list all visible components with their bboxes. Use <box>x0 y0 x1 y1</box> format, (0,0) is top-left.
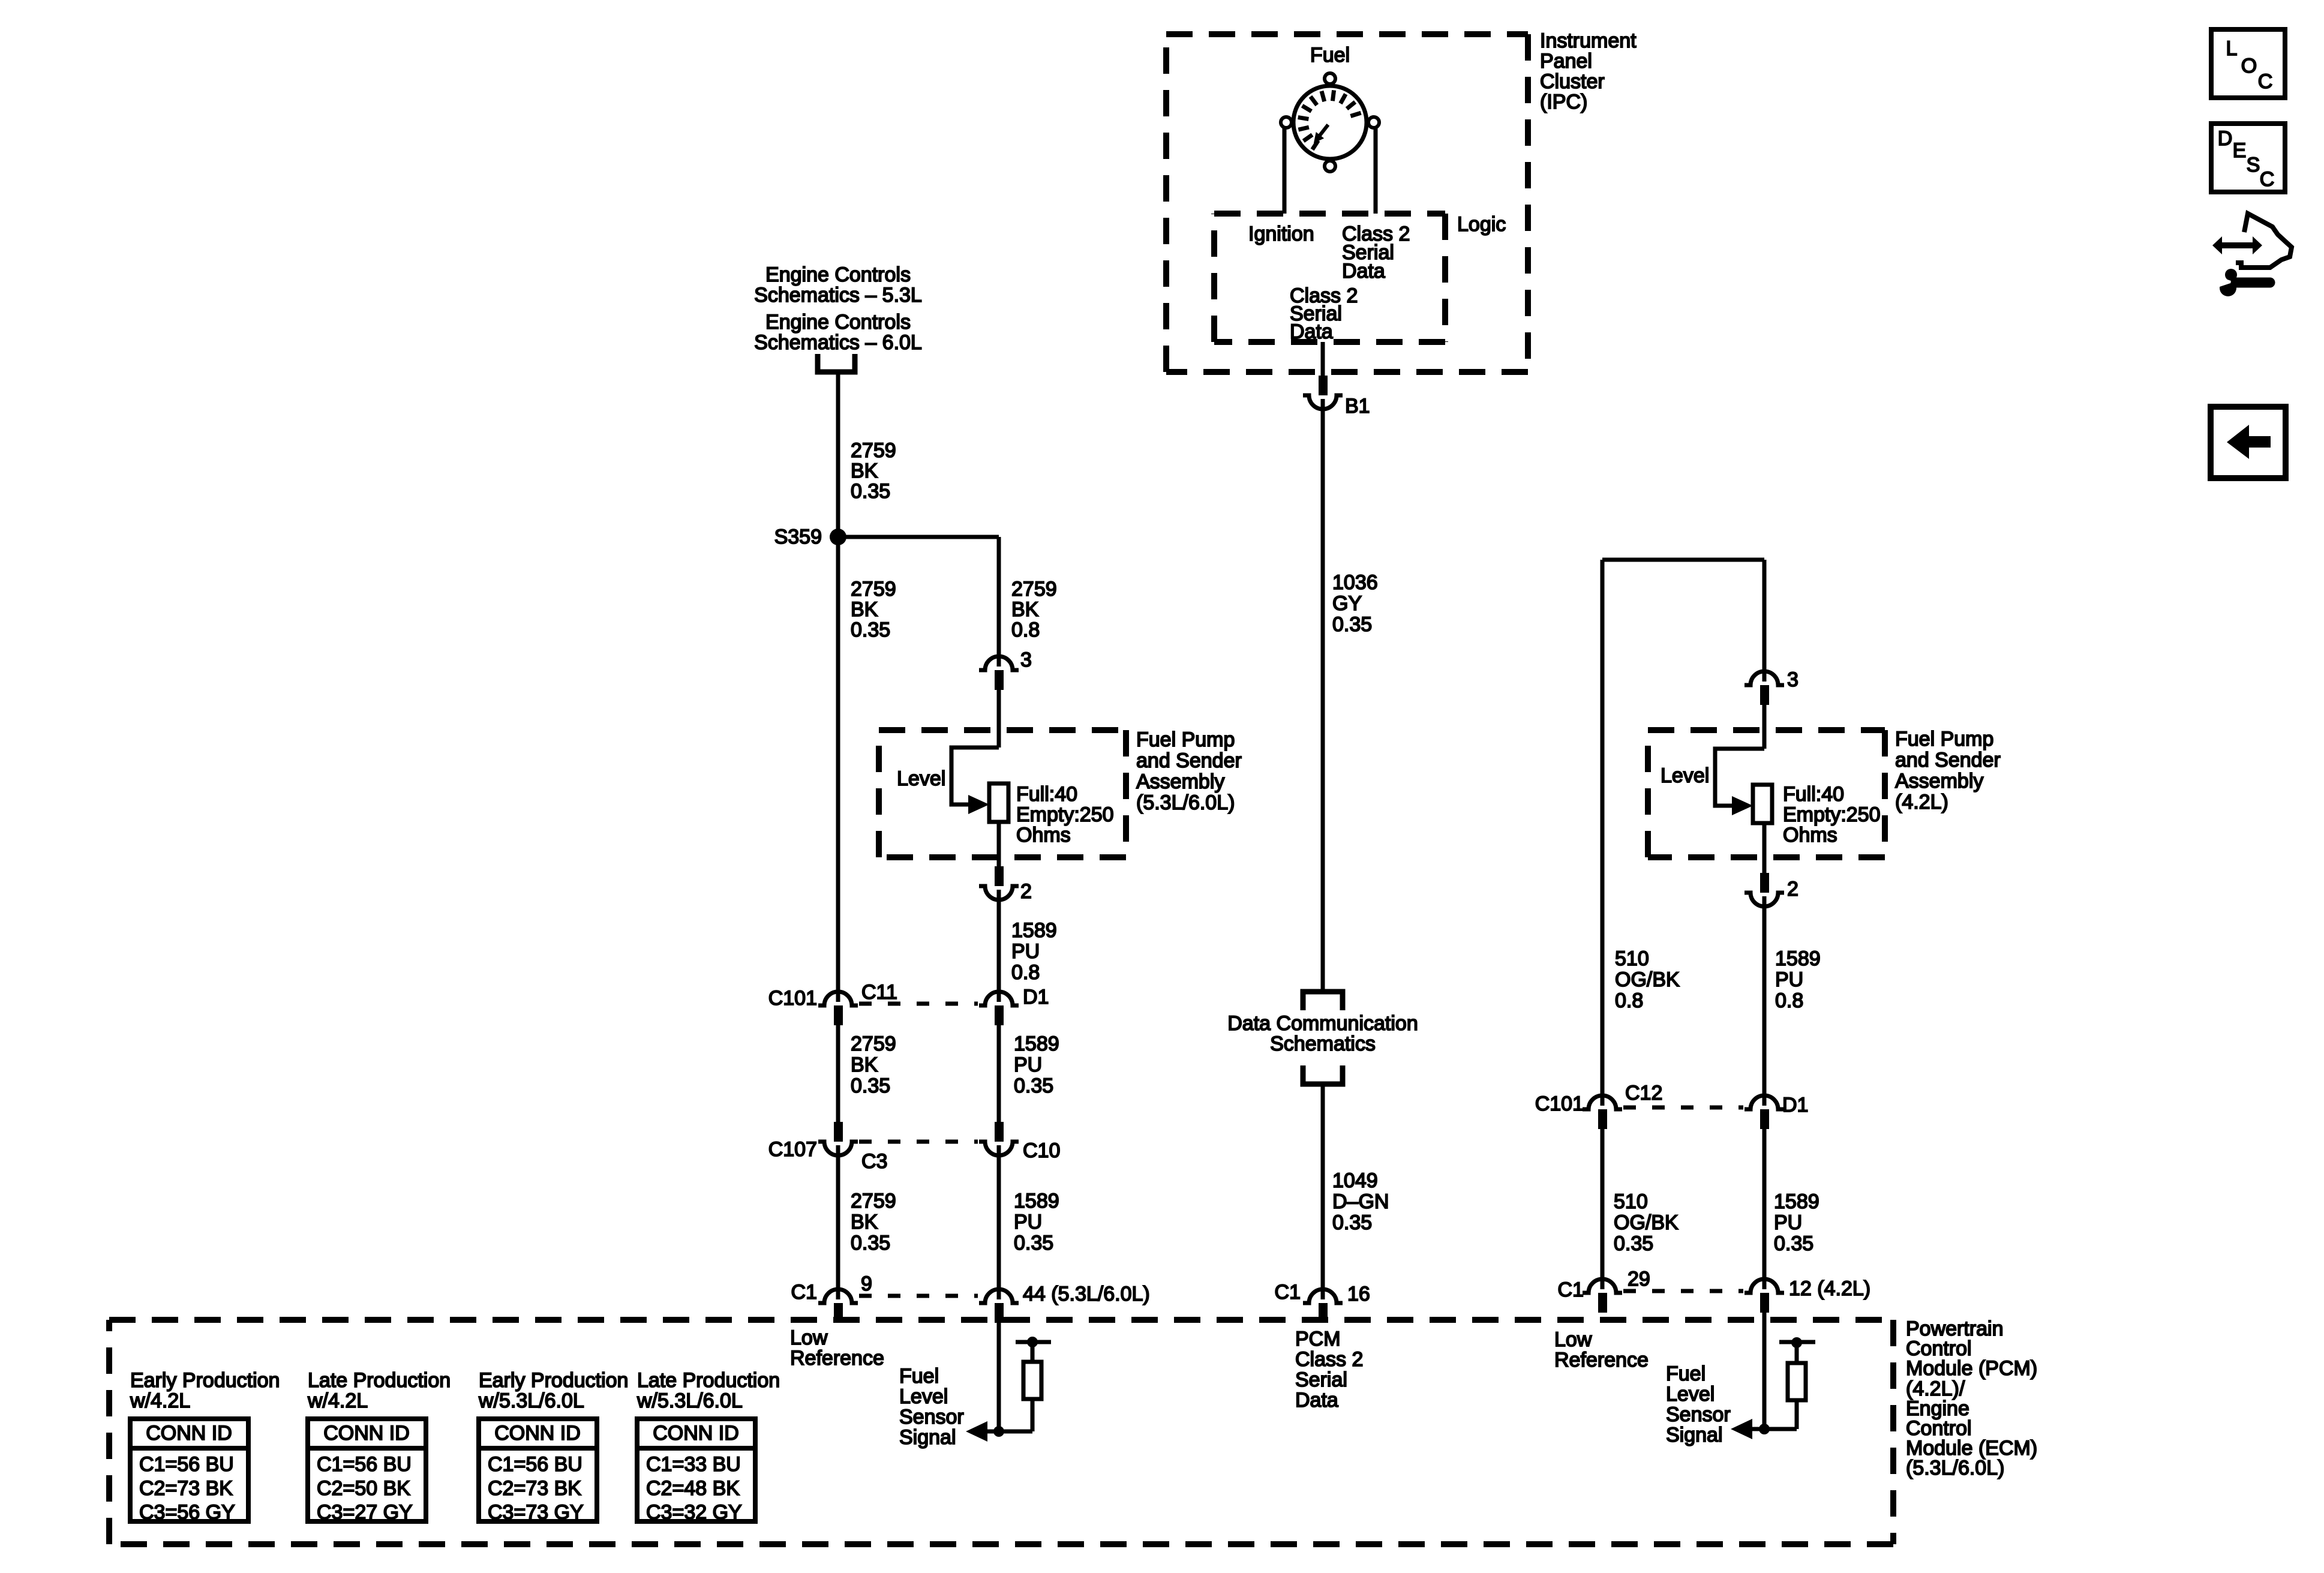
svg-text:C3=56 GY: C3=56 GY <box>139 1501 235 1524</box>
svg-text:L: L <box>2226 37 2238 60</box>
svg-text:(4.2L): (4.2L) <box>1895 791 1948 813</box>
svg-text:CONN ID: CONN ID <box>653 1422 739 1445</box>
svg-text:Early Production: Early Production <box>130 1369 280 1392</box>
svg-text:0.35: 0.35 <box>1014 1074 1053 1097</box>
svg-text:C1: C1 <box>1558 1278 1584 1301</box>
svg-text:2759: 2759 <box>851 439 896 462</box>
svg-text:C3=32 GY: C3=32 GY <box>646 1501 742 1524</box>
svg-text:2: 2 <box>1020 880 1032 903</box>
svg-text:0.35: 0.35 <box>851 619 890 641</box>
svg-text:1049: 1049 <box>1332 1169 1378 1192</box>
svg-text:O: O <box>2241 55 2257 77</box>
svg-text:(5.3L/6.0L): (5.3L/6.0L) <box>1906 1457 2004 1479</box>
svg-text:Late Production: Late Production <box>637 1369 780 1392</box>
svg-text:C3: C3 <box>861 1150 887 1173</box>
svg-text:Schematics – 5.3L: Schematics – 5.3L <box>754 284 922 307</box>
svg-text:BK: BK <box>851 1053 878 1076</box>
svg-text:Assembly: Assembly <box>1895 770 1983 792</box>
svg-text:C11: C11 <box>861 981 897 1004</box>
svg-text:Data Communication: Data Communication <box>1227 1012 1418 1035</box>
svg-text:and Sender: and Sender <box>1136 749 1242 772</box>
svg-text:1589: 1589 <box>1774 1190 1819 1213</box>
svg-text:Fuel Pump: Fuel Pump <box>1136 728 1235 751</box>
svg-text:9: 9 <box>861 1272 872 1295</box>
svg-text:0.35: 0.35 <box>1614 1232 1653 1255</box>
svg-text:0.35: 0.35 <box>1332 613 1372 636</box>
svg-text:C1: C1 <box>1275 1281 1301 1304</box>
svg-text:29: 29 <box>1628 1268 1650 1290</box>
svg-text:Reference: Reference <box>790 1347 884 1370</box>
svg-text:Level: Level <box>1661 764 1709 787</box>
svg-text:0.35: 0.35 <box>851 1232 890 1254</box>
svg-text:Data: Data <box>1342 260 1385 283</box>
svg-text:Level: Level <box>897 767 945 790</box>
svg-text:Data: Data <box>1290 320 1333 343</box>
svg-text:CONN ID: CONN ID <box>494 1422 581 1445</box>
svg-text:PU: PU <box>1014 1053 1042 1076</box>
svg-text:S359: S359 <box>774 526 822 548</box>
svg-text:C101: C101 <box>1535 1092 1584 1115</box>
svg-text:Class 2: Class 2 <box>1295 1348 1363 1371</box>
svg-text:OG/BK: OG/BK <box>1615 968 1680 991</box>
svg-text:Reference: Reference <box>1554 1349 1649 1371</box>
svg-text:D–GN: D–GN <box>1332 1190 1389 1213</box>
svg-text:Low: Low <box>790 1326 828 1349</box>
svg-text:12 (4.2L): 12 (4.2L) <box>1789 1277 1870 1300</box>
svg-text:Panel: Panel <box>1540 50 1592 73</box>
svg-text:Engine Controls: Engine Controls <box>765 311 911 334</box>
svg-text:C1: C1 <box>791 1281 817 1304</box>
svg-text:(5.3L/6.0L): (5.3L/6.0L) <box>1136 791 1235 814</box>
svg-text:PU: PU <box>1774 1211 1802 1234</box>
svg-text:Fuel Pump: Fuel Pump <box>1895 728 1993 751</box>
svg-text:Empty:250: Empty:250 <box>1016 803 1114 826</box>
svg-text:1589: 1589 <box>1011 919 1057 942</box>
svg-text:Serial: Serial <box>1295 1368 1347 1391</box>
svg-text:1036: 1036 <box>1332 571 1378 594</box>
svg-text:0.8: 0.8 <box>1011 619 1040 641</box>
svg-text:BK: BK <box>1011 598 1039 621</box>
svg-text:C1=56 BU: C1=56 BU <box>139 1453 234 1476</box>
svg-text:Logic: Logic <box>1457 213 1506 236</box>
svg-text:Fuel: Fuel <box>899 1365 939 1388</box>
svg-text:C2=73 BK: C2=73 BK <box>139 1477 233 1500</box>
svg-text:GY: GY <box>1332 592 1362 615</box>
svg-text:Ohms: Ohms <box>1783 824 1837 846</box>
svg-text:510: 510 <box>1615 947 1649 970</box>
svg-text:Sensor: Sensor <box>899 1406 964 1428</box>
svg-text:2: 2 <box>1787 878 1798 900</box>
svg-text:Level: Level <box>899 1385 948 1408</box>
svg-text:C: C <box>2260 168 2275 191</box>
svg-text:C2=48 BK: C2=48 BK <box>646 1477 740 1500</box>
svg-text:C1=56 BU: C1=56 BU <box>317 1453 412 1476</box>
svg-text:Full:40: Full:40 <box>1783 783 1844 806</box>
svg-text:CONN ID: CONN ID <box>146 1422 232 1445</box>
svg-text:C1=33 BU: C1=33 BU <box>646 1453 741 1476</box>
svg-text:0.35: 0.35 <box>1014 1232 1053 1254</box>
svg-text:510: 510 <box>1614 1190 1648 1213</box>
svg-text:(IPC): (IPC) <box>1540 91 1587 113</box>
svg-text:Signal: Signal <box>899 1426 956 1449</box>
svg-text:PU: PU <box>1014 1211 1042 1233</box>
svg-text:Engine Controls: Engine Controls <box>765 263 911 286</box>
svg-text:Early Production: Early Production <box>479 1369 628 1392</box>
svg-text:OG/BK: OG/BK <box>1614 1211 1679 1234</box>
svg-text:D: D <box>2218 127 2233 150</box>
svg-text:CONN ID: CONN ID <box>323 1422 410 1445</box>
svg-text:0.8: 0.8 <box>1011 961 1040 984</box>
svg-text:PU: PU <box>1011 940 1040 963</box>
svg-text:0.35: 0.35 <box>851 1074 890 1097</box>
svg-text:C12: C12 <box>1625 1082 1662 1104</box>
svg-text:PCM: PCM <box>1295 1328 1341 1350</box>
svg-text:w/4.2L: w/4.2L <box>130 1389 190 1412</box>
svg-text:BK: BK <box>851 460 878 482</box>
svg-text:Instrument: Instrument <box>1540 29 1637 52</box>
svg-text:B1: B1 <box>1345 395 1370 418</box>
svg-text:w/4.2L: w/4.2L <box>307 1389 368 1412</box>
svg-text:Assembly: Assembly <box>1136 770 1224 793</box>
svg-text:C107: C107 <box>768 1138 817 1161</box>
svg-text:Level: Level <box>1666 1383 1715 1406</box>
svg-text:2759: 2759 <box>1011 578 1057 601</box>
svg-text:Module (PCM): Module (PCM) <box>1906 1357 2037 1380</box>
svg-text:and Sender: and Sender <box>1895 749 2001 772</box>
svg-text:C2=73 BK: C2=73 BK <box>488 1477 581 1500</box>
svg-text:C1=56 BU: C1=56 BU <box>488 1453 582 1476</box>
svg-text:PU: PU <box>1775 968 1803 991</box>
svg-text:Ignition: Ignition <box>1248 223 1314 245</box>
svg-text:1589: 1589 <box>1775 947 1821 970</box>
svg-text:D1: D1 <box>1023 986 1049 1008</box>
svg-text:Schematics – 6.0L: Schematics – 6.0L <box>754 331 922 354</box>
svg-text:BK: BK <box>851 1211 878 1233</box>
svg-text:Fuel: Fuel <box>1310 44 1350 67</box>
svg-text:1589: 1589 <box>1014 1190 1059 1212</box>
svg-text:Late Production: Late Production <box>308 1369 451 1392</box>
svg-text:2759: 2759 <box>851 1032 896 1055</box>
svg-text:Sensor: Sensor <box>1666 1403 1731 1426</box>
svg-text:2759: 2759 <box>851 1190 896 1212</box>
svg-text:C3=73 GY: C3=73 GY <box>488 1501 584 1524</box>
svg-text:Schematics: Schematics <box>1270 1032 1376 1055</box>
svg-text:C10: C10 <box>1023 1139 1060 1162</box>
svg-text:Low: Low <box>1554 1328 1592 1351</box>
svg-text:C101: C101 <box>768 987 817 1010</box>
svg-text:Signal: Signal <box>1666 1424 1723 1446</box>
svg-text:3: 3 <box>1020 649 1032 671</box>
svg-text:Fuel: Fuel <box>1666 1362 1706 1385</box>
svg-text:0.8: 0.8 <box>1775 989 1803 1012</box>
svg-text:2759: 2759 <box>851 578 896 601</box>
svg-text:0.35: 0.35 <box>851 480 890 503</box>
svg-text:Data: Data <box>1295 1389 1338 1412</box>
svg-text:w/5.3L/6.0L: w/5.3L/6.0L <box>478 1389 584 1412</box>
svg-text:BK: BK <box>851 598 878 621</box>
svg-text:1589: 1589 <box>1014 1032 1059 1055</box>
svg-text:Full:40: Full:40 <box>1016 783 1077 806</box>
svg-text:D1: D1 <box>1782 1094 1808 1116</box>
svg-text:C3=27 GY: C3=27 GY <box>317 1501 413 1524</box>
svg-text:E: E <box>2233 139 2247 162</box>
svg-text:Ohms: Ohms <box>1016 824 1071 846</box>
svg-text:0.8: 0.8 <box>1615 989 1643 1012</box>
svg-text:16: 16 <box>1347 1283 1370 1305</box>
svg-text:3: 3 <box>1787 668 1798 691</box>
svg-text:0.35: 0.35 <box>1332 1211 1372 1234</box>
svg-text:Cluster: Cluster <box>1540 70 1605 93</box>
svg-text:C: C <box>2258 70 2273 93</box>
svg-text:44 (5.3L/6.0L): 44 (5.3L/6.0L) <box>1023 1283 1150 1305</box>
svg-text:Empty:250: Empty:250 <box>1783 803 1881 826</box>
svg-text:0.35: 0.35 <box>1774 1232 1813 1255</box>
svg-text:C2=50 BK: C2=50 BK <box>317 1477 410 1500</box>
svg-text:S: S <box>2247 154 2260 176</box>
svg-text:w/5.3L/6.0L: w/5.3L/6.0L <box>636 1389 743 1412</box>
